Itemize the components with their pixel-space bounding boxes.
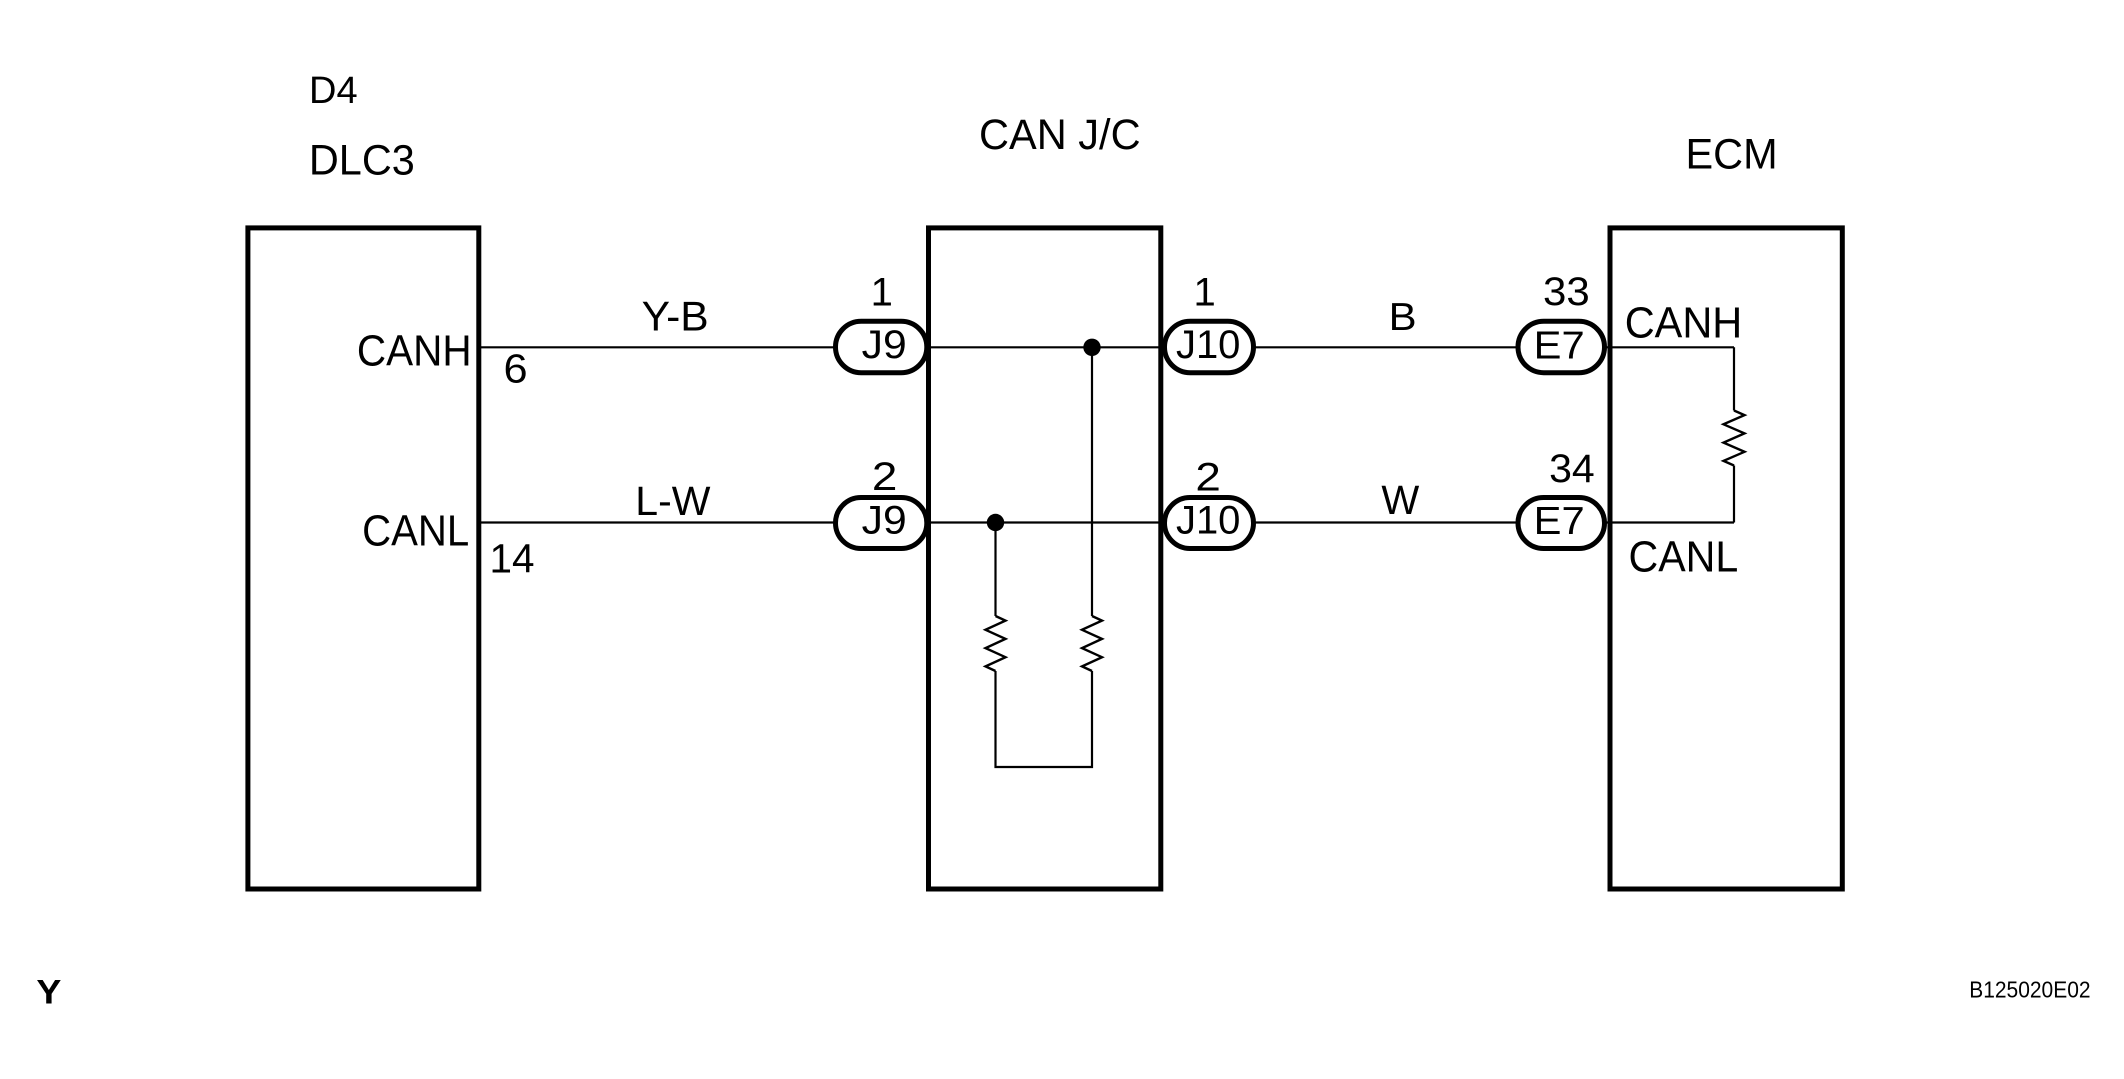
svg-text:J9: J9 xyxy=(862,323,907,367)
svg-text:34: 34 xyxy=(1549,447,1595,491)
svg-text:CANH: CANH xyxy=(357,327,472,376)
svg-text:E7: E7 xyxy=(1534,500,1585,543)
svg-text:6: 6 xyxy=(504,346,528,392)
svg-text:J10: J10 xyxy=(1176,499,1241,543)
svg-text:CANH: CANH xyxy=(1625,299,1743,348)
svg-text:14: 14 xyxy=(490,536,535,582)
svg-text:1: 1 xyxy=(871,271,893,315)
svg-text:2: 2 xyxy=(1195,456,1221,500)
svg-text:L-W: L-W xyxy=(635,478,710,524)
svg-text:33: 33 xyxy=(1543,270,1590,314)
svg-text:CANL: CANL xyxy=(362,507,469,556)
svg-text:Y: Y xyxy=(36,974,61,1012)
svg-text:B125020E02: B125020E02 xyxy=(1969,977,2090,1003)
svg-text:2: 2 xyxy=(872,455,898,499)
svg-text:CAN J/C: CAN J/C xyxy=(979,111,1141,159)
svg-text:J9: J9 xyxy=(862,499,907,543)
svg-text:Y-B: Y-B xyxy=(642,293,709,340)
svg-text:E7: E7 xyxy=(1534,325,1585,368)
svg-text:W: W xyxy=(1381,477,1420,523)
svg-text:J10: J10 xyxy=(1176,323,1241,367)
svg-text:ECM: ECM xyxy=(1686,131,1778,179)
svg-text:DLC3: DLC3 xyxy=(309,137,415,185)
svg-text:D4: D4 xyxy=(309,70,358,112)
svg-text:1: 1 xyxy=(1194,271,1216,315)
svg-text:B: B xyxy=(1389,296,1417,339)
svg-text:CANL: CANL xyxy=(1629,533,1739,582)
